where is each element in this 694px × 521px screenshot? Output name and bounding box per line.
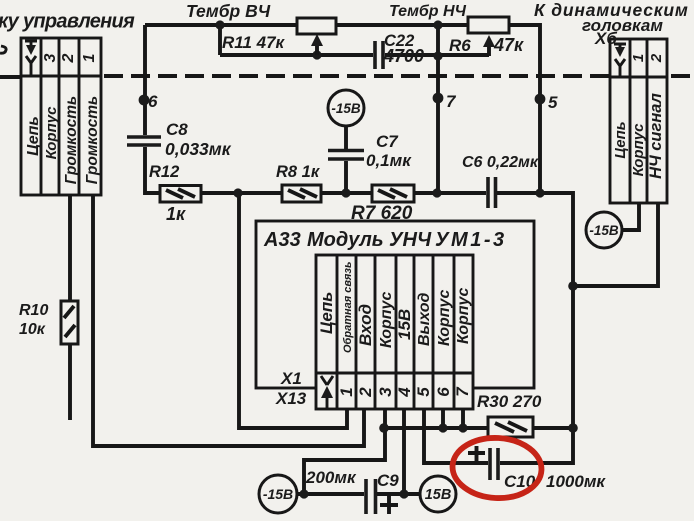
svg-text:УНЧ: УНЧ	[389, 229, 432, 251]
svg-text:ку управления: ку управления	[0, 11, 135, 33]
svg-text:R10: R10	[19, 302, 48, 319]
svg-text:С6 0,22мк: С6 0,22мк	[462, 154, 539, 171]
svg-text:Цепь: Цепь	[317, 292, 336, 334]
svg-text:Корпус: Корпус	[43, 106, 60, 159]
svg-text:47к: 47к	[493, 35, 524, 55]
svg-text:200мк: 200мк	[305, 468, 357, 487]
svg-text:15В: 15В	[395, 309, 414, 340]
svg-text:1к: 1к	[166, 204, 186, 224]
svg-text:1: 1	[337, 387, 356, 396]
svg-text:7: 7	[453, 386, 472, 397]
svg-text:3: 3	[42, 53, 59, 62]
svg-text:НЧ сигнал: НЧ сигнал	[647, 93, 665, 179]
svg-text:4700: 4700	[383, 46, 424, 66]
svg-text:Корпус: Корпус	[630, 123, 647, 176]
svg-text:6: 6	[148, 92, 158, 111]
svg-text:С9: С9	[377, 471, 399, 490]
svg-text:R30 270: R30 270	[477, 392, 542, 411]
svg-text:R11 47к: R11 47к	[222, 33, 286, 52]
svg-text:Корпус: Корпус	[378, 292, 395, 348]
svg-text:Цепь: Цепь	[25, 116, 42, 156]
svg-text:1000мк: 1000мк	[546, 472, 606, 491]
svg-text:0,1мк: 0,1мк	[366, 151, 412, 170]
svg-text:7: 7	[446, 92, 457, 111]
svg-text:R6: R6	[449, 36, 471, 55]
svg-text:R8 1к: R8 1к	[276, 163, 321, 181]
svg-text:5: 5	[414, 387, 433, 397]
svg-text:Тембр НЧ: Тембр НЧ	[389, 3, 467, 20]
svg-text:Хб: Хб	[594, 29, 617, 48]
svg-text:А33: А33	[263, 229, 301, 251]
svg-text:R7 620: R7 620	[351, 203, 413, 224]
svg-text:Х13: Х13	[275, 389, 307, 408]
svg-text:4: 4	[395, 387, 414, 398]
svg-text:Цепь: Цепь	[612, 121, 629, 158]
svg-text:УМ1-3: УМ1-3	[435, 229, 507, 251]
svg-text:-15В: -15В	[331, 101, 361, 116]
svg-text:15В: 15В	[425, 487, 452, 503]
svg-text:6: 6	[434, 387, 453, 397]
svg-text:2: 2	[356, 387, 375, 398]
svg-text:Х1: Х1	[280, 369, 302, 388]
svg-text:Громкость: Громкость	[84, 96, 101, 184]
svg-text:Выход: Выход	[416, 293, 433, 346]
svg-text:Корпус: Корпус	[455, 288, 472, 344]
svg-text:Тембр ВЧ: Тембр ВЧ	[186, 1, 271, 21]
svg-text:С7: С7	[376, 132, 399, 151]
svg-text:0,033мк: 0,033мк	[165, 139, 232, 159]
svg-text:R12: R12	[149, 163, 179, 181]
svg-text:-15В: -15В	[589, 223, 619, 238]
svg-text:1: 1	[630, 54, 647, 62]
svg-text:Корпус: Корпус	[436, 290, 453, 346]
svg-text:Громкость: Громкость	[63, 96, 80, 184]
svg-text:10к: 10к	[19, 321, 46, 338]
svg-text:-15В: -15В	[263, 486, 293, 502]
svg-text:Обратная связь: Обратная связь	[342, 261, 354, 353]
svg-text:Модуль: Модуль	[307, 229, 384, 251]
svg-text:5: 5	[548, 93, 558, 112]
svg-text:Вход: Вход	[356, 304, 375, 346]
svg-text:2: 2	[648, 53, 665, 63]
svg-text:1: 1	[81, 53, 98, 62]
svg-text:3: 3	[376, 387, 395, 397]
svg-text:2: 2	[60, 53, 77, 63]
svg-text:С8: С8	[166, 120, 188, 139]
